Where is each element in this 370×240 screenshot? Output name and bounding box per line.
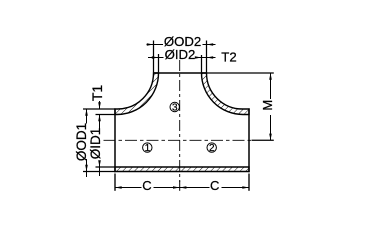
node 1 bbox=[143, 143, 152, 152]
dimension T1 upper arrow bbox=[99, 101, 101, 109]
right end face bbox=[248, 108, 250, 172]
horizontal centerline bbox=[104, 139, 252, 141]
node 3 bbox=[170, 102, 179, 111]
extension line C left bbox=[114, 174, 116, 191]
dimension C left bbox=[115, 187, 142, 189]
extension line C right bbox=[248, 174, 250, 191]
wall section right-top (hatched) bbox=[202, 73, 250, 115]
wall section left-top (hatched) bbox=[115, 73, 159, 115]
extension line run outer bottom bbox=[83, 171, 115, 173]
svg-text:C: C bbox=[142, 178, 151, 193]
svg-text:ØOD1: ØOD1 bbox=[74, 123, 89, 161]
svg-text:ØID2: ØID2 bbox=[165, 47, 196, 62]
extension line branch inner left bbox=[158, 54, 160, 72]
extension run centerline to M bbox=[252, 139, 274, 141]
vertical centerline bbox=[179, 60, 181, 182]
svg-text:T2: T2 bbox=[221, 50, 236, 65]
extension line run inner top bbox=[96, 114, 116, 116]
dimension ID2 bbox=[148, 57, 164, 59]
extension branch face to M bbox=[207, 72, 274, 74]
svg-text:3: 3 bbox=[172, 102, 178, 113]
branch top face line bbox=[154, 72, 207, 74]
dimension C right bbox=[180, 187, 210, 189]
svg-text:ØID1: ØID1 bbox=[88, 128, 103, 160]
extension line run inner bottom bbox=[96, 166, 116, 168]
svg-text:M: M bbox=[260, 100, 275, 111]
extension line branch outer left bbox=[153, 41, 155, 73]
dimension M bbox=[270, 73, 272, 99]
wall section bottom (hatched) bbox=[115, 167, 249, 172]
dimension OD2 bbox=[147, 44, 164, 46]
node 2 bbox=[207, 143, 216, 152]
extension line run outer top bbox=[83, 108, 115, 110]
svg-text:C: C bbox=[210, 178, 219, 193]
svg-text:1: 1 bbox=[145, 143, 151, 154]
svg-text:T1: T1 bbox=[89, 85, 105, 102]
dimension OD1 bbox=[86, 109, 88, 124]
svg-text:2: 2 bbox=[209, 143, 215, 154]
dimension ID1 (shares line with T1) bbox=[99, 115, 101, 133]
extension line branch inner right bbox=[201, 55, 203, 72]
left end face bbox=[114, 108, 116, 172]
extension line branch outer right bbox=[206, 41, 208, 73]
